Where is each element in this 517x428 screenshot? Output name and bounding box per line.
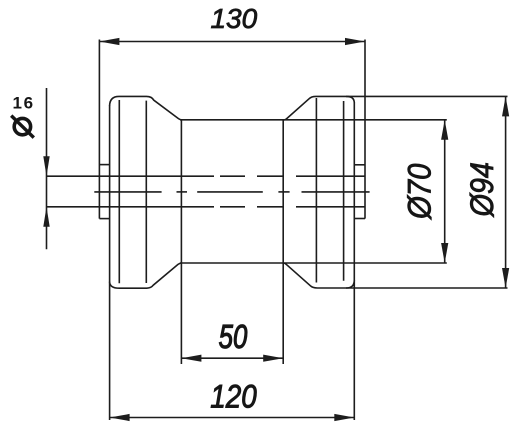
svg-text:130: 130 <box>210 3 257 34</box>
svg-text:120: 120 <box>210 380 257 415</box>
svg-text:Ø70: Ø70 <box>402 164 437 220</box>
svg-text:16: 16 <box>13 94 35 113</box>
svg-text:50: 50 <box>219 319 248 356</box>
svg-text:Ø94: Ø94 <box>465 162 501 217</box>
